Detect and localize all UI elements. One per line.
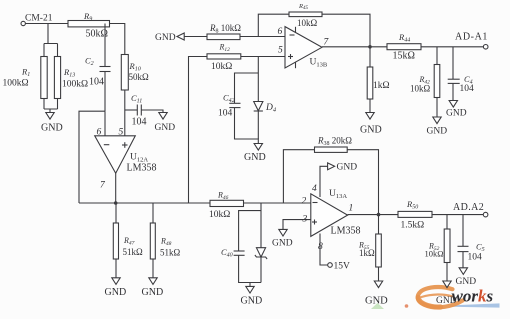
- terminal CM-21: [21, 21, 25, 25]
- svg-text:GND: GND: [241, 296, 263, 307]
- svg-text:GND: GND: [436, 296, 457, 306]
- ground: [41, 113, 63, 134]
- svg-text:4: 4: [312, 184, 317, 194]
- wire pin4 to ground arrow: [320, 166, 328, 197]
- node output U13B: [368, 45, 372, 49]
- svg-text:104: 104: [218, 109, 233, 119]
- wire bus up to R12: [189, 57, 208, 204]
- wire zener down: [260, 257, 262, 283]
- svg-text:1kΩ: 1kΩ: [373, 81, 390, 91]
- wire D4 down: [257, 111, 259, 139]
- svg-text:GND: GND: [41, 123, 63, 134]
- svg-text:10kΩ: 10kΩ: [425, 249, 444, 259]
- op-amp U13B: [278, 27, 330, 69]
- wire R12 to pin5: [241, 56, 285, 58]
- svg-text:10kΩ: 10kΩ: [410, 84, 431, 94]
- svg-text:5: 5: [119, 127, 124, 137]
- svg-text:GND: GND: [456, 277, 477, 287]
- svg-text:2: 2: [302, 197, 307, 207]
- svg-text:10kΩ: 10kΩ: [211, 62, 232, 72]
- resistor R42: [410, 47, 440, 117]
- svg-text:GND: GND: [155, 123, 176, 133]
- wire CM-21 to R9: [25, 23, 68, 25]
- ground: [241, 283, 263, 307]
- ground arrow left of R8: [155, 33, 184, 43]
- resistor R13: [54, 44, 88, 110]
- svg-text:LM358: LM358: [127, 163, 157, 174]
- ground: [360, 113, 382, 136]
- svg-text:3: 3: [302, 215, 308, 225]
- ground: [436, 281, 457, 306]
- resistor R8: [207, 23, 241, 40]
- resistor R55: [358, 215, 381, 281]
- wire U13A output: [348, 214, 398, 216]
- resistor R12: [207, 43, 241, 73]
- svg-text:GND: GND: [142, 287, 164, 298]
- wire GND to R8: [184, 36, 207, 38]
- svg-text:15kΩ: 15kΩ: [393, 51, 415, 62]
- wire join R1 R13: [44, 109, 58, 112]
- svg-text:104: 104: [468, 253, 483, 263]
- node output junction: [114, 201, 118, 205]
- wire pin8 to 15V: [320, 234, 328, 266]
- resistor R47 51k: [113, 203, 143, 278]
- wire U13B output: [322, 46, 387, 48]
- resistor R10: [121, 55, 149, 136]
- svg-text:GND: GND: [446, 109, 467, 119]
- op-amp U12A: [95, 127, 157, 190]
- svg-text:GND: GND: [105, 287, 127, 298]
- svg-text:works: works: [452, 287, 494, 306]
- wire node A down: [44, 24, 58, 44]
- terminal 15V: [328, 262, 350, 272]
- resistor R38 20k feedback: [283, 136, 378, 215]
- resistor R1: [3, 44, 48, 110]
- svg-text:R38 20kΩ: R38 20kΩ: [317, 136, 352, 148]
- svg-text:AD.A2: AD.A2: [453, 202, 484, 213]
- ground: [365, 281, 388, 307]
- resistor R48 51k: [150, 203, 180, 278]
- capacitor C5: [458, 215, 485, 268]
- wire pin3 to ground: [283, 220, 311, 230]
- svg-text:GND: GND: [337, 163, 358, 173]
- svg-text:1: 1: [349, 204, 354, 214]
- resistor R9: [68, 11, 110, 40]
- ground: [155, 113, 176, 134]
- resistor R45 feedback: [258, 3, 370, 47]
- svg-text:AD-A1: AD-A1: [455, 32, 488, 43]
- wire R46 to pin2: [244, 202, 311, 204]
- svg-text:1kΩ: 1kΩ: [359, 248, 375, 258]
- wire R50 to AD.A2: [432, 214, 483, 216]
- op-amp U13A: [302, 184, 361, 252]
- wire zener tap: [260, 203, 262, 248]
- svg-text:104: 104: [132, 117, 147, 128]
- svg-text:100kΩ: 100kΩ: [62, 80, 88, 90]
- terminal AD-A1: [455, 32, 488, 50]
- capacitor C11: [125, 93, 163, 128]
- wire R44 to AD-A1: [421, 46, 483, 48]
- svg-text:5: 5: [278, 46, 283, 56]
- ground: [105, 278, 127, 298]
- svg-text:GND: GND: [244, 152, 266, 163]
- svg-text:GND: GND: [365, 296, 388, 307]
- diode D4: [254, 102, 277, 114]
- wire R9 to R10: [110, 24, 125, 55]
- svg-text:GND: GND: [155, 33, 176, 43]
- svg-text:15V: 15V: [334, 262, 351, 272]
- ground: [427, 117, 448, 137]
- watermark: [371, 287, 500, 310]
- svg-text:104: 104: [89, 77, 104, 88]
- node output U13A: [377, 213, 381, 217]
- svg-text:R8 10kΩ: R8 10kΩ: [209, 23, 241, 35]
- ground: [244, 144, 266, 164]
- resistor R50: [398, 199, 432, 231]
- capacitor C40: [221, 211, 261, 283]
- svg-text:10kΩ: 10kΩ: [209, 210, 230, 220]
- svg-text:1.5kΩ: 1.5kΩ: [401, 221, 425, 231]
- ground: [272, 229, 293, 248]
- svg-text:GND: GND: [427, 127, 448, 137]
- resistor R52: [425, 215, 451, 281]
- svg-text:104: 104: [460, 84, 475, 94]
- ground: [142, 278, 164, 298]
- capacitor C4: [448, 47, 474, 101]
- resistor 1k: [367, 47, 389, 113]
- zener diode: [255, 248, 267, 259]
- terminal AD.A2: [453, 202, 488, 217]
- wire D4 tap: [257, 57, 259, 102]
- svg-text:6: 6: [97, 127, 102, 137]
- wire R8 to pin6: [240, 36, 285, 38]
- capacitor C42: [218, 73, 258, 143]
- wire pin6 vertical: [104, 111, 106, 136]
- wire output bus: [79, 202, 210, 204]
- svg-text:LM358: LM358: [331, 226, 361, 237]
- svg-text:50kΩ: 50kΩ: [129, 72, 150, 82]
- ground: [446, 101, 467, 119]
- wire feedback rail left op-amp: [79, 111, 105, 203]
- resistor R44: [387, 32, 421, 62]
- svg-text:100kΩ: 100kΩ: [3, 79, 29, 89]
- capacitor C2: [85, 24, 111, 112]
- svg-text:6: 6: [278, 27, 283, 37]
- svg-text:10kΩ: 10kΩ: [297, 18, 318, 28]
- ground: [456, 268, 477, 287]
- svg-text:CM-21: CM-21: [25, 14, 53, 24]
- svg-text:51kΩ: 51kΩ: [160, 248, 181, 258]
- resistor R46: [209, 191, 244, 221]
- svg-text:GND: GND: [360, 125, 382, 136]
- svg-text:GND: GND: [272, 239, 293, 249]
- wire op-amp output down: [115, 173, 117, 203]
- svg-text:51kΩ: 51kΩ: [123, 247, 144, 257]
- ground arrow right: [328, 163, 358, 173]
